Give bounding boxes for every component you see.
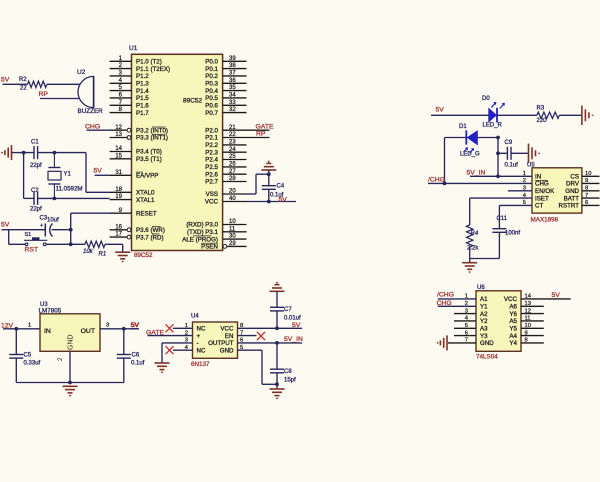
op-amp U1 89C52 MCU box: [132, 54, 223, 250]
svg-text:31: 31: [115, 170, 122, 176]
U5 pin3 stub: [508, 190, 532, 192]
U5 pin 8 GND: [582, 190, 600, 192]
wire 12V to U3 IN: [3, 328, 40, 330]
U1 pin 3 P1.2: [110, 75, 132, 77]
op-amp U6 74LS04 box: [476, 291, 521, 352]
wire RP to buzzer: [40, 98, 79, 100]
svg-text:14: 14: [115, 146, 122, 152]
svg-text:A3: A3: [480, 326, 488, 333]
node switch/R1 junction: [69, 242, 73, 246]
svg-text:33: 33: [229, 100, 236, 106]
svg-text:7: 7: [585, 193, 588, 199]
wire CHG to U1 pin12: [87, 129, 110, 131]
svg-text:0.1uf: 0.1uf: [505, 163, 519, 169]
svg-text:5V: 5V: [131, 322, 140, 329]
svg-text:D1: D1: [459, 124, 467, 130]
svg-text:RP: RP: [39, 91, 49, 98]
svg-text:P1.2: P1.2: [136, 73, 149, 80]
wire C4 to VCC rail: [268, 189, 270, 201]
U5 pin 6 RSTRT: [582, 204, 600, 206]
node C5 junction: [14, 327, 18, 331]
wire left vertical (crystal gnd rail): [23, 153, 25, 199]
wire ground to C1: [12, 152, 35, 154]
svg-text:P3.4 (T0): P3.4 (T0): [136, 149, 162, 156]
svg-text:P3.2 (INT0): P3.2 (INT0): [136, 127, 168, 134]
wire C9 to ground: [511, 152, 529, 154]
svg-text:P1.4: P1.4: [136, 88, 149, 95]
svg-text:VCC: VCC: [504, 296, 518, 303]
U6 pin 14 VCC: [521, 298, 571, 300]
svg-text:(RXD) P3.0: (RXD) P3.0: [186, 222, 218, 229]
svg-text:ALE (PROG): ALE (PROG): [182, 236, 218, 243]
no-connect X (U4 pin1): [166, 324, 174, 332]
svg-text:GATE: GATE: [256, 123, 274, 130]
wire node down to 5V_IN: [497, 138, 499, 177]
svg-text:(TXD) P3.1: (TXD) P3.1: [187, 229, 219, 236]
node crystal top junction: [53, 151, 57, 155]
capacitor C3 10uf electrolytic: [44, 224, 46, 237]
no-connect X (U4 pin7): [257, 332, 265, 340]
svg-text:36: 36: [229, 78, 236, 84]
svg-text:C1: C1: [31, 140, 39, 146]
svg-text:22: 22: [229, 132, 236, 138]
svg-text:5V: 5V: [292, 322, 301, 329]
svg-text:Y1: Y1: [480, 304, 488, 311]
svg-text:P0.7: P0.7: [205, 110, 218, 117]
svg-text:IN: IN: [535, 174, 541, 181]
wire to C2: [24, 197, 34, 199]
U1 pin 28 P2.7: [223, 181, 247, 183]
svg-text:15pf: 15pf: [284, 378, 296, 384]
svg-text:100nf: 100nf: [505, 231, 520, 237]
ground (C8): [270, 388, 285, 390]
wire U4 pin3 down to ground: [161, 343, 163, 363]
svg-text:IN: IN: [44, 328, 51, 335]
svg-text:P2.0: P2.0: [205, 127, 218, 134]
U1 pin 24 P2.3: [223, 151, 247, 153]
svg-text:10: 10: [585, 171, 591, 177]
svg-text:GND: GND: [565, 188, 579, 195]
wire D1 anode to node: [477, 137, 498, 139]
wire 12V node down to C5: [15, 329, 17, 355]
svg-text:7: 7: [465, 338, 468, 344]
node C8/pin5 junction: [275, 382, 279, 386]
svg-text:A4: A4: [509, 333, 517, 340]
wire C1 to corner: [38, 152, 86, 154]
wire U4 pin3: [162, 342, 193, 344]
ground (C9, sideways): [528, 144, 530, 163]
svg-text:VCC: VCC: [205, 199, 219, 206]
svg-text:20: 20: [229, 189, 236, 195]
node C9 junction: [496, 151, 500, 155]
wire ground to C4: [268, 170, 270, 186]
node VSS-ground junction: [267, 172, 271, 176]
svg-text:XTAL0: XTAL0: [136, 190, 155, 197]
capacitor C11: [492, 228, 506, 230]
svg-text:0.01uf: 0.01uf: [284, 316, 301, 322]
resistor R1: [85, 241, 105, 247]
svg-text:U5: U5: [527, 163, 535, 169]
svg-text:5V_IN: 5V_IN: [284, 336, 303, 343]
wire U5 pin5 CT to C11: [499, 204, 532, 206]
capacitor C9: [506, 147, 508, 160]
svg-text:13: 13: [525, 301, 531, 307]
svg-text:P0.1: P0.1: [205, 66, 218, 73]
svg-text:EN: EN: [225, 333, 234, 340]
svg-text:S1: S1: [25, 232, 32, 238]
svg-text:9: 9: [585, 178, 588, 184]
svg-text:R2: R2: [19, 77, 27, 83]
svg-text:19: 19: [115, 194, 122, 200]
node crystal bottom junction: [53, 197, 57, 201]
U1 pin 1 P1.0 (T2): [110, 60, 132, 62]
svg-text:P0.3: P0.3: [205, 81, 218, 88]
svg-text:CS: CS: [570, 174, 579, 181]
svg-text:U4: U4: [191, 314, 199, 320]
U1 pin 4 P1.3: [110, 82, 132, 84]
node C8 junction: [275, 341, 279, 345]
svg-text:1: 1: [523, 171, 526, 177]
svg-text:PSEN: PSEN: [201, 244, 218, 251]
svg-text:U2: U2: [77, 69, 86, 76]
svg-text:P2.7: P2.7: [205, 179, 218, 186]
svg-text:3: 3: [465, 308, 468, 314]
wire reset node vertical: [70, 213, 72, 244]
svg-text:C4: C4: [277, 184, 285, 190]
svg-text:1: 1: [28, 322, 31, 328]
svg-text:3: 3: [106, 322, 109, 328]
svg-text:BUZZER: BUZZER: [78, 108, 104, 115]
U5 pin 10 CS: [582, 175, 600, 177]
svg-text:P3.7 (RD): P3.7 (RD): [136, 234, 164, 241]
U1 pin 33 P0.6: [223, 104, 247, 106]
ground (R4/C11): [462, 262, 477, 264]
U1 pin 27 P2.6: [223, 173, 247, 175]
svg-text:CT: CT: [535, 203, 543, 210]
U6 pin 10 Y5: [521, 327, 544, 329]
svg-text:OUT: OUT: [81, 328, 95, 335]
U1 pin 37 P0.2: [223, 75, 247, 77]
U1 pin 17 P3.7 (RD): [110, 236, 127, 238]
node reset/C3 junction: [69, 228, 73, 232]
crystal Y1: [53, 153, 55, 168]
svg-text:P2.2: P2.2: [205, 142, 218, 149]
U1 pin 29 PSEN: [227, 245, 247, 247]
ground (U4 pin3): [155, 362, 170, 364]
svg-text:P1.3: P1.3: [136, 81, 149, 88]
resistor R2: [28, 81, 47, 87]
U1 pin 21 P2.0: [223, 129, 270, 131]
svg-text:R1: R1: [99, 252, 107, 258]
svg-text:GND: GND: [480, 340, 494, 347]
U5 pin 7 BATT: [582, 197, 600, 199]
U1 pin 19 XTAL1: [110, 199, 132, 201]
svg-text:MAX1898: MAX1898: [531, 217, 559, 224]
svg-text:6: 6: [585, 200, 588, 206]
U1 pin 11 (TXD) P3.1: [223, 231, 247, 233]
U6 pin 6 Y3: [454, 335, 476, 337]
U4 pin1 stub: [173, 327, 193, 329]
svg-text:34: 34: [229, 93, 236, 99]
svg-text:13: 13: [115, 132, 122, 138]
svg-text:C6: C6: [132, 353, 140, 359]
svg-text:12: 12: [525, 308, 531, 314]
capacitor C2: [33, 192, 35, 205]
svg-text:R3: R3: [537, 106, 545, 112]
resistor R3: [537, 112, 560, 118]
capacitor C4: [262, 185, 276, 187]
U1 pin 35 P0.4: [223, 90, 247, 92]
U6 pin 12 Y6: [521, 313, 544, 315]
U1 pin 15 P3.5 (T1): [110, 158, 132, 160]
svg-text:37: 37: [229, 71, 236, 77]
svg-text:LED_R: LED_R: [483, 123, 503, 129]
svg-text:P1.6: P1.6: [136, 103, 149, 110]
svg-text:RST: RST: [25, 247, 39, 254]
U1 pin 7 P1.6: [110, 104, 132, 106]
node C4-VCC junction: [267, 200, 271, 204]
U1 pin 23 P2.2: [223, 144, 247, 146]
svg-text:LM7805: LM7805: [39, 307, 62, 314]
ground (U3): [63, 385, 78, 387]
U1 pin 6 P1.5: [110, 97, 132, 99]
svg-text:+: +: [197, 333, 201, 340]
svg-text:89C52: 89C52: [134, 252, 153, 259]
svg-text:P0.5: P0.5: [205, 95, 218, 102]
svg-text:30: 30: [229, 234, 236, 240]
svg-text:P0.2: P0.2: [205, 73, 218, 80]
wire 5V to U1 pin31: [95, 174, 110, 176]
svg-text:CHG: CHG: [535, 181, 549, 188]
svg-text:29: 29: [229, 241, 236, 247]
svg-text:A1: A1: [480, 296, 488, 303]
wire 5V to R2: [3, 83, 28, 85]
wire down to R4: [469, 198, 471, 225]
U1 pin 9 RESET: [110, 212, 132, 214]
U1 pin 13 P3.3 (INT1): [110, 137, 127, 139]
node /CHG-D1 junction: [443, 182, 447, 186]
svg-text:EA/VPP: EA/VPP: [136, 173, 158, 180]
svg-text:VCC: VCC: [220, 326, 234, 333]
svg-text:15: 15: [115, 153, 122, 159]
svg-text:Y4: Y4: [509, 340, 517, 347]
switch S1: [9, 243, 26, 245]
U1 pin 40 VCC: [223, 201, 247, 203]
capacitor C6: [117, 354, 131, 356]
svg-text:5V_IN: 5V_IN: [467, 170, 486, 177]
wire GATE to U4 pin2: [148, 335, 193, 337]
U1 pin 5 P1.4: [110, 90, 132, 92]
svg-text:VSS: VSS: [206, 191, 218, 198]
wire down to C11: [498, 205, 500, 228]
svg-text:6: 6: [465, 330, 468, 336]
wire to C9: [498, 152, 507, 154]
U6 pin 5 A3: [454, 327, 476, 329]
svg-text:74LS04: 74LS04: [476, 354, 498, 361]
U1 pin 12 P3.2 (INT0): [110, 129, 127, 131]
svg-text:27: 27: [229, 169, 236, 175]
ground (crystal): [11, 145, 13, 160]
svg-text:35: 35: [229, 85, 236, 91]
svg-text:BATT: BATT: [564, 195, 580, 202]
svg-text:C11: C11: [497, 216, 508, 222]
wire D1 cathode down to /CHG: [444, 138, 446, 184]
svg-text:11: 11: [525, 316, 531, 322]
wire 5V node down to C6: [123, 329, 125, 355]
wire U4 pin8 VCC to 5V: [238, 327, 303, 329]
node 5V_IN junction: [496, 174, 500, 178]
U1 pin 31 EA/VPP: [110, 174, 132, 176]
node C7 junction: [275, 326, 279, 330]
U4 pin7 stub: [238, 335, 257, 337]
svg-text:P2.5: P2.5: [205, 164, 218, 171]
svg-text:NC: NC: [197, 348, 206, 355]
svg-text:+: +: [40, 223, 43, 229]
svg-text:5V: 5V: [552, 292, 561, 299]
svg-text:8: 8: [585, 186, 588, 192]
U1 pin 16 P3.6 (WR): [110, 229, 127, 231]
wire U3 GND pin2 down: [69, 351, 71, 382]
ground (U1/R1): [115, 251, 130, 253]
U6 pin 9 A4: [521, 335, 544, 337]
op-amp U5 MAX1898 box: [532, 168, 582, 213]
wire CHG to U6 pin2: [438, 305, 476, 307]
svg-text:25: 25: [229, 154, 236, 160]
svg-text:220: 220: [537, 118, 548, 124]
node C6 junction: [122, 327, 126, 331]
svg-text:C8: C8: [284, 369, 292, 375]
svg-text:1: 1: [465, 294, 468, 300]
svg-text:XTAL1: XTAL1: [136, 197, 155, 204]
U1 pin 22 P2.1: [223, 137, 270, 139]
svg-text:A2: A2: [480, 311, 488, 318]
wire R2 to buzzer: [47, 83, 80, 85]
wire to D1 cathode: [445, 137, 467, 139]
U1 pin 20 VSS: [223, 193, 247, 195]
svg-text:28: 28: [229, 176, 236, 182]
wire U4 pin5 GND: [238, 349, 263, 351]
svg-text:5V: 5V: [279, 197, 288, 204]
svg-text:CHG: CHG: [85, 123, 100, 130]
svg-text:C9: C9: [505, 140, 513, 146]
wire C3 to reset node: [52, 229, 71, 231]
wire R3 to ground: [559, 114, 582, 116]
svg-text:RESET: RESET: [136, 210, 157, 217]
U6 pin 7 GND: [448, 342, 476, 344]
U1 pin 25 P2.4: [223, 159, 247, 161]
wire R1 to ground: [105, 243, 123, 245]
capacitor C7: [270, 306, 284, 308]
svg-text:Y6: Y6: [509, 311, 517, 318]
svg-text:5V: 5V: [1, 77, 10, 84]
svg-text:10: 10: [525, 323, 531, 329]
capacitor C8: [270, 368, 284, 370]
svg-text:P2.4: P2.4: [205, 157, 218, 164]
svg-text:17: 17: [115, 232, 122, 238]
wire 5V to C3: [2, 229, 46, 231]
svg-text:6N137: 6N137: [191, 361, 210, 368]
U6 pin 11 A5: [521, 320, 544, 322]
svg-text:P1.7: P1.7: [136, 110, 149, 117]
wire 5V_IN to U5 pin1: [470, 175, 532, 177]
svg-text:NC: NC: [197, 326, 206, 333]
svg-text:23: 23: [229, 140, 236, 146]
svg-text:22pf: 22pf: [30, 207, 42, 213]
svg-text:10k: 10k: [83, 249, 94, 255]
svg-text:R4: R4: [471, 231, 479, 237]
ground (R3, sideways): [581, 106, 583, 125]
svg-text:C5: C5: [24, 353, 32, 359]
svg-text:/CHG: /CHG: [437, 292, 454, 299]
wire U4 pin6 OUTPUT to 5V_IN: [238, 342, 303, 344]
U1 pin 8 P1.7: [110, 112, 132, 114]
wire 5V to D0: [431, 114, 489, 116]
wire vertical to XTAL0: [85, 153, 87, 193]
svg-text:EN/OK: EN/OK: [535, 188, 555, 195]
U1 pin 2 P1.1 (T2EX): [110, 68, 132, 70]
buzzer U2: [78, 76, 94, 107]
svg-text:DRV: DRV: [566, 181, 580, 188]
svg-text:P1.5: P1.5: [136, 95, 149, 102]
ground (C7 top, inverted): [276, 282, 278, 284]
wire 5V_IN node down to C8: [276, 343, 278, 369]
U1 pin 32 P0.7: [223, 112, 247, 114]
svg-text:5V: 5V: [1, 222, 10, 229]
wire C2 to U1 pin19 XTAL1: [38, 197, 110, 199]
svg-text:P3.3 (INT1): P3.3 (INT1): [136, 135, 168, 142]
wire to U1 pin9 RESET: [71, 212, 110, 214]
op-amp U3 LM7805 box: [40, 314, 100, 352]
svg-text:U6: U6: [477, 285, 485, 291]
U6 pin 8 Y4: [521, 342, 544, 344]
svg-text:C7: C7: [284, 307, 292, 313]
svg-text:22pf: 22pf: [30, 163, 42, 169]
op-amp U4 6N137 box: [193, 322, 238, 358]
wire bottom ground rail: [16, 382, 124, 384]
svg-text:11.0592M: 11.0592M: [56, 186, 83, 193]
svg-text:LED_G: LED_G: [460, 152, 480, 158]
ground (U6 pin7, sideways): [446, 335, 448, 350]
svg-text:RP: RP: [256, 131, 266, 138]
capacitor C5: [9, 354, 23, 356]
svg-text:Y1: Y1: [64, 172, 72, 178]
svg-text:D0: D0: [482, 96, 490, 102]
svg-text:89C52: 89C52: [183, 98, 203, 105]
svg-text:0.1uf: 0.1uf: [131, 361, 145, 367]
svg-text:12: 12: [115, 125, 122, 131]
node XTAL top-left junction: [22, 151, 26, 155]
U1 pin 36 P0.3: [223, 82, 247, 84]
svg-text:P0.4: P0.4: [205, 88, 218, 95]
svg-text:A6: A6: [509, 304, 517, 311]
svg-text:P3.6 (WR): P3.6 (WR): [136, 227, 165, 234]
svg-text:OUTPUT: OUTPUT: [208, 340, 234, 347]
ground (C4 top, inverted): [268, 161, 270, 163]
svg-text:P2.3: P2.3: [205, 149, 218, 156]
svg-text:P2.6: P2.6: [205, 171, 218, 178]
wire D0 to R3: [497, 114, 537, 116]
wire ground to C7: [276, 291, 278, 307]
no-connect X (U4 pin4): [166, 346, 174, 354]
U1 pin 39 P0.0: [223, 60, 247, 62]
svg-text:P0.0: P0.0: [205, 59, 218, 66]
svg-text:Y2: Y2: [480, 318, 488, 325]
node U3 ground junction: [68, 381, 72, 385]
wire /CHG to U5 pin2: [428, 182, 532, 184]
svg-text:16: 16: [115, 224, 122, 230]
svg-text:0.33uf: 0.33uf: [24, 361, 41, 367]
svg-text:/CHG: /CHG: [428, 177, 445, 184]
